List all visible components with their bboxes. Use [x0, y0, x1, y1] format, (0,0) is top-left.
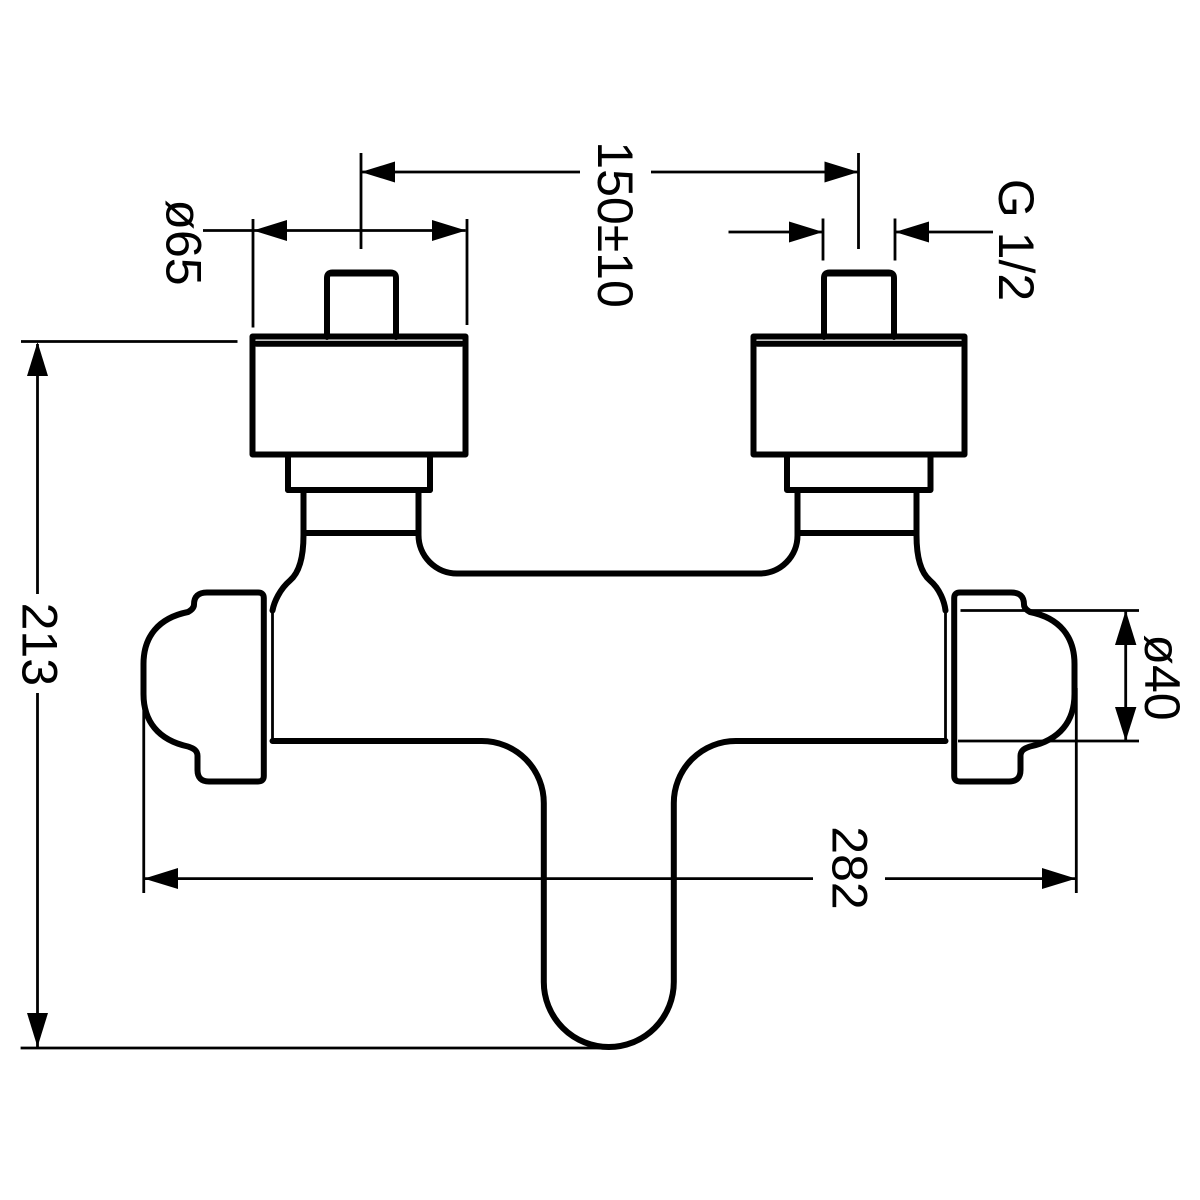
right pipe joint line [798, 530, 917, 536]
dimension G 1/2 witness lines [823, 219, 895, 261]
left wall-union knob [144, 593, 264, 782]
dimension 282 line [144, 877, 1076, 880]
dimension 213 arrow up [27, 342, 48, 376]
right flange top cap line [758, 341, 961, 347]
right wall-union knob [954, 593, 1074, 782]
right nut bottom edge [798, 487, 917, 493]
dimension G 1/2 line [729, 231, 994, 234]
dimension 150±10 arrow left [361, 162, 395, 183]
right threaded stub G1/2 [824, 273, 894, 338]
svg-text:ø65: ø65 [156, 199, 212, 285]
dimension 282 witness lines [144, 688, 1077, 893]
left flange top cap line [257, 341, 462, 347]
left pipe joint line [304, 530, 419, 536]
dimension G 1/2 arrow right [895, 222, 929, 243]
dimension 213 line [36, 344, 39, 1048]
left threaded stub G1/2 [327, 273, 396, 338]
dimension 282 arrow right [1042, 868, 1076, 889]
right flange bottom edge [787, 452, 931, 458]
dimension 282 arrow left [144, 868, 178, 889]
svg-text:213: 213 [12, 603, 68, 686]
left stub top edge thick [330, 271, 393, 277]
left nut bottom edge [288, 487, 430, 493]
dimension 150±10 witness lines [361, 153, 859, 249]
svg-text:G 1/2: G 1/2 [988, 179, 1044, 301]
dimension ø65 witness lines [253, 219, 467, 328]
dimension ø65 arrow right [432, 220, 466, 241]
dimension ø65 line [203, 229, 466, 232]
dimension 213 witness line top [21, 340, 238, 343]
dimension G 1/2 arrow left [789, 222, 823, 243]
faucet body silhouette [253, 337, 965, 1048]
dimension ø40 arrow up [1115, 611, 1136, 646]
dimension ø40 arrow down [1115, 707, 1136, 741]
left flange bottom edge [288, 452, 430, 458]
svg-text:282: 282 [822, 826, 878, 909]
dimension ø40 line [1124, 611, 1127, 742]
dimension 150±10 line [361, 171, 859, 174]
svg-text:ø40: ø40 [1134, 634, 1190, 720]
dimension 213 arrow down [27, 1013, 48, 1047]
left union face line [271, 611, 274, 742]
dimension ø65 arrow left [253, 220, 287, 241]
wall baseline [21, 1047, 617, 1050]
dimension 150±10 arrow right [825, 162, 859, 183]
right stub top edge thick [827, 271, 891, 277]
dimension ø40 witness lines [958, 611, 1139, 742]
svg-text:150±10: 150±10 [587, 141, 643, 307]
right union face line [944, 611, 947, 742]
